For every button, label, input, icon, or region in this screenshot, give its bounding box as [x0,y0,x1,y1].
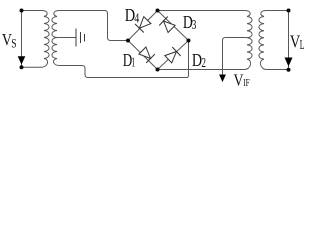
svg-text:4: 4 [134,11,139,26]
svg-text:IF: IF [243,78,250,89]
svg-text:S: S [11,35,16,50]
svg-text:1: 1 [131,55,135,70]
svg-text:2: 2 [201,55,206,70]
svg-text:V: V [234,70,244,89]
svg-text:V: V [290,31,300,51]
svg-text:3: 3 [192,17,197,32]
svg-text:L: L [300,37,305,52]
